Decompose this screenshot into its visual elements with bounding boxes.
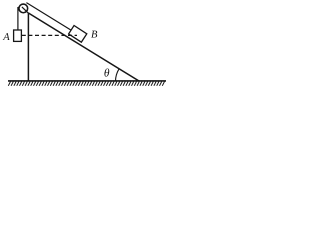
svg-text:A: A: [2, 32, 10, 43]
pulley strut: [22, 7, 29, 13]
block A: [14, 30, 22, 41]
pulley U1: [19, 4, 28, 13]
ground line: [8, 80, 166, 82]
svg-text:B: B: [91, 30, 98, 41]
rope to B: [26, 3, 71, 30]
rope to A: [17, 7, 19, 30]
ground hatching: [8, 82, 164, 86]
dashed line A-B: [22, 34, 77, 36]
block B: [69, 26, 87, 43]
wall (vertical left edge of incline): [27, 13, 29, 82]
angle arc: [116, 69, 120, 81]
incline surface (hypotenuse): [28, 13, 139, 81]
background: [0, 0, 167, 90]
svg-text:θ: θ: [104, 68, 110, 80]
